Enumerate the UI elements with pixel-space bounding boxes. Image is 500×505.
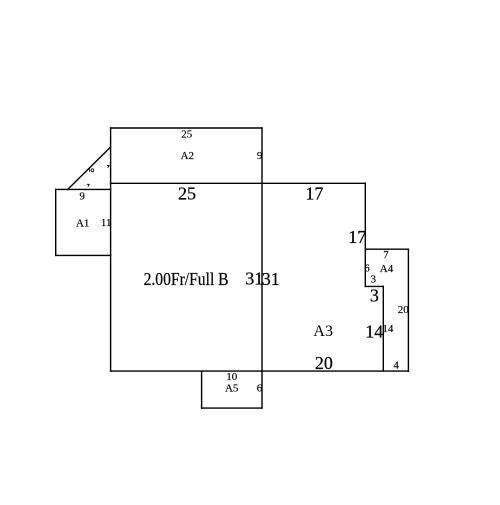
wire A2 top [111,127,262,129]
wire A1 bottom [56,254,111,256]
wire right edge A2/main/A5 [261,128,263,408]
svg-text:10: 10 [226,371,238,383]
wire A3 right lower [382,286,384,371]
wire bottom [111,370,409,372]
svg-text:25: 25 [178,184,196,204]
wire A4 top [365,248,408,250]
wire A5 left edge [201,371,203,408]
wire A5 bottom [202,407,262,409]
svg-text:2.00Fr/Full B: 2.00Fr/Full B [144,269,229,289]
svg-text:A1: A1 [76,217,89,229]
svg-text:6: 6 [364,263,370,275]
svg-text:A4: A4 [380,263,394,275]
svg-text:14: 14 [382,323,394,335]
wire A3 right upper [364,183,366,286]
svg-text:20: 20 [315,353,333,373]
svg-text:A5: A5 [225,383,239,395]
svg-text:9: 9 [257,150,263,162]
wire main top [111,182,366,184]
wire A1 top [56,188,111,190]
svg-text:14: 14 [365,321,383,341]
svg-text:31: 31 [245,269,263,289]
wire A4 right edge [407,249,409,371]
svg-text:A3: A3 [313,323,333,340]
tiny labels drawn as paths [87,165,110,186]
wire triangle hypotenuse [68,147,111,189]
tiny 7 (triangle base) [87,184,90,186]
svg-text:A2: A2 [181,150,194,162]
svg-text:25: 25 [181,129,193,141]
svg-text:17: 17 [348,227,366,247]
svg-text:17: 17 [305,184,323,204]
wire left edge A2+main [110,128,112,371]
big labels [144,184,384,373]
small labels [76,129,409,395]
wire A1 left edge [55,189,57,255]
svg-text:31: 31 [262,269,280,289]
svg-text:6: 6 [257,383,263,395]
svg-text:3: 3 [370,286,379,306]
svg-text:7: 7 [383,249,389,261]
tiny 7 (triangle vertical side) [107,165,109,168]
wire A3 step [365,285,383,287]
tiny 10 (hypotenuse) [88,169,91,172]
svg-text:4: 4 [393,359,399,371]
svg-text:20: 20 [398,304,410,316]
svg-text:9: 9 [79,190,85,202]
svg-text:3: 3 [370,273,376,285]
svg-text:11: 11 [101,217,112,229]
